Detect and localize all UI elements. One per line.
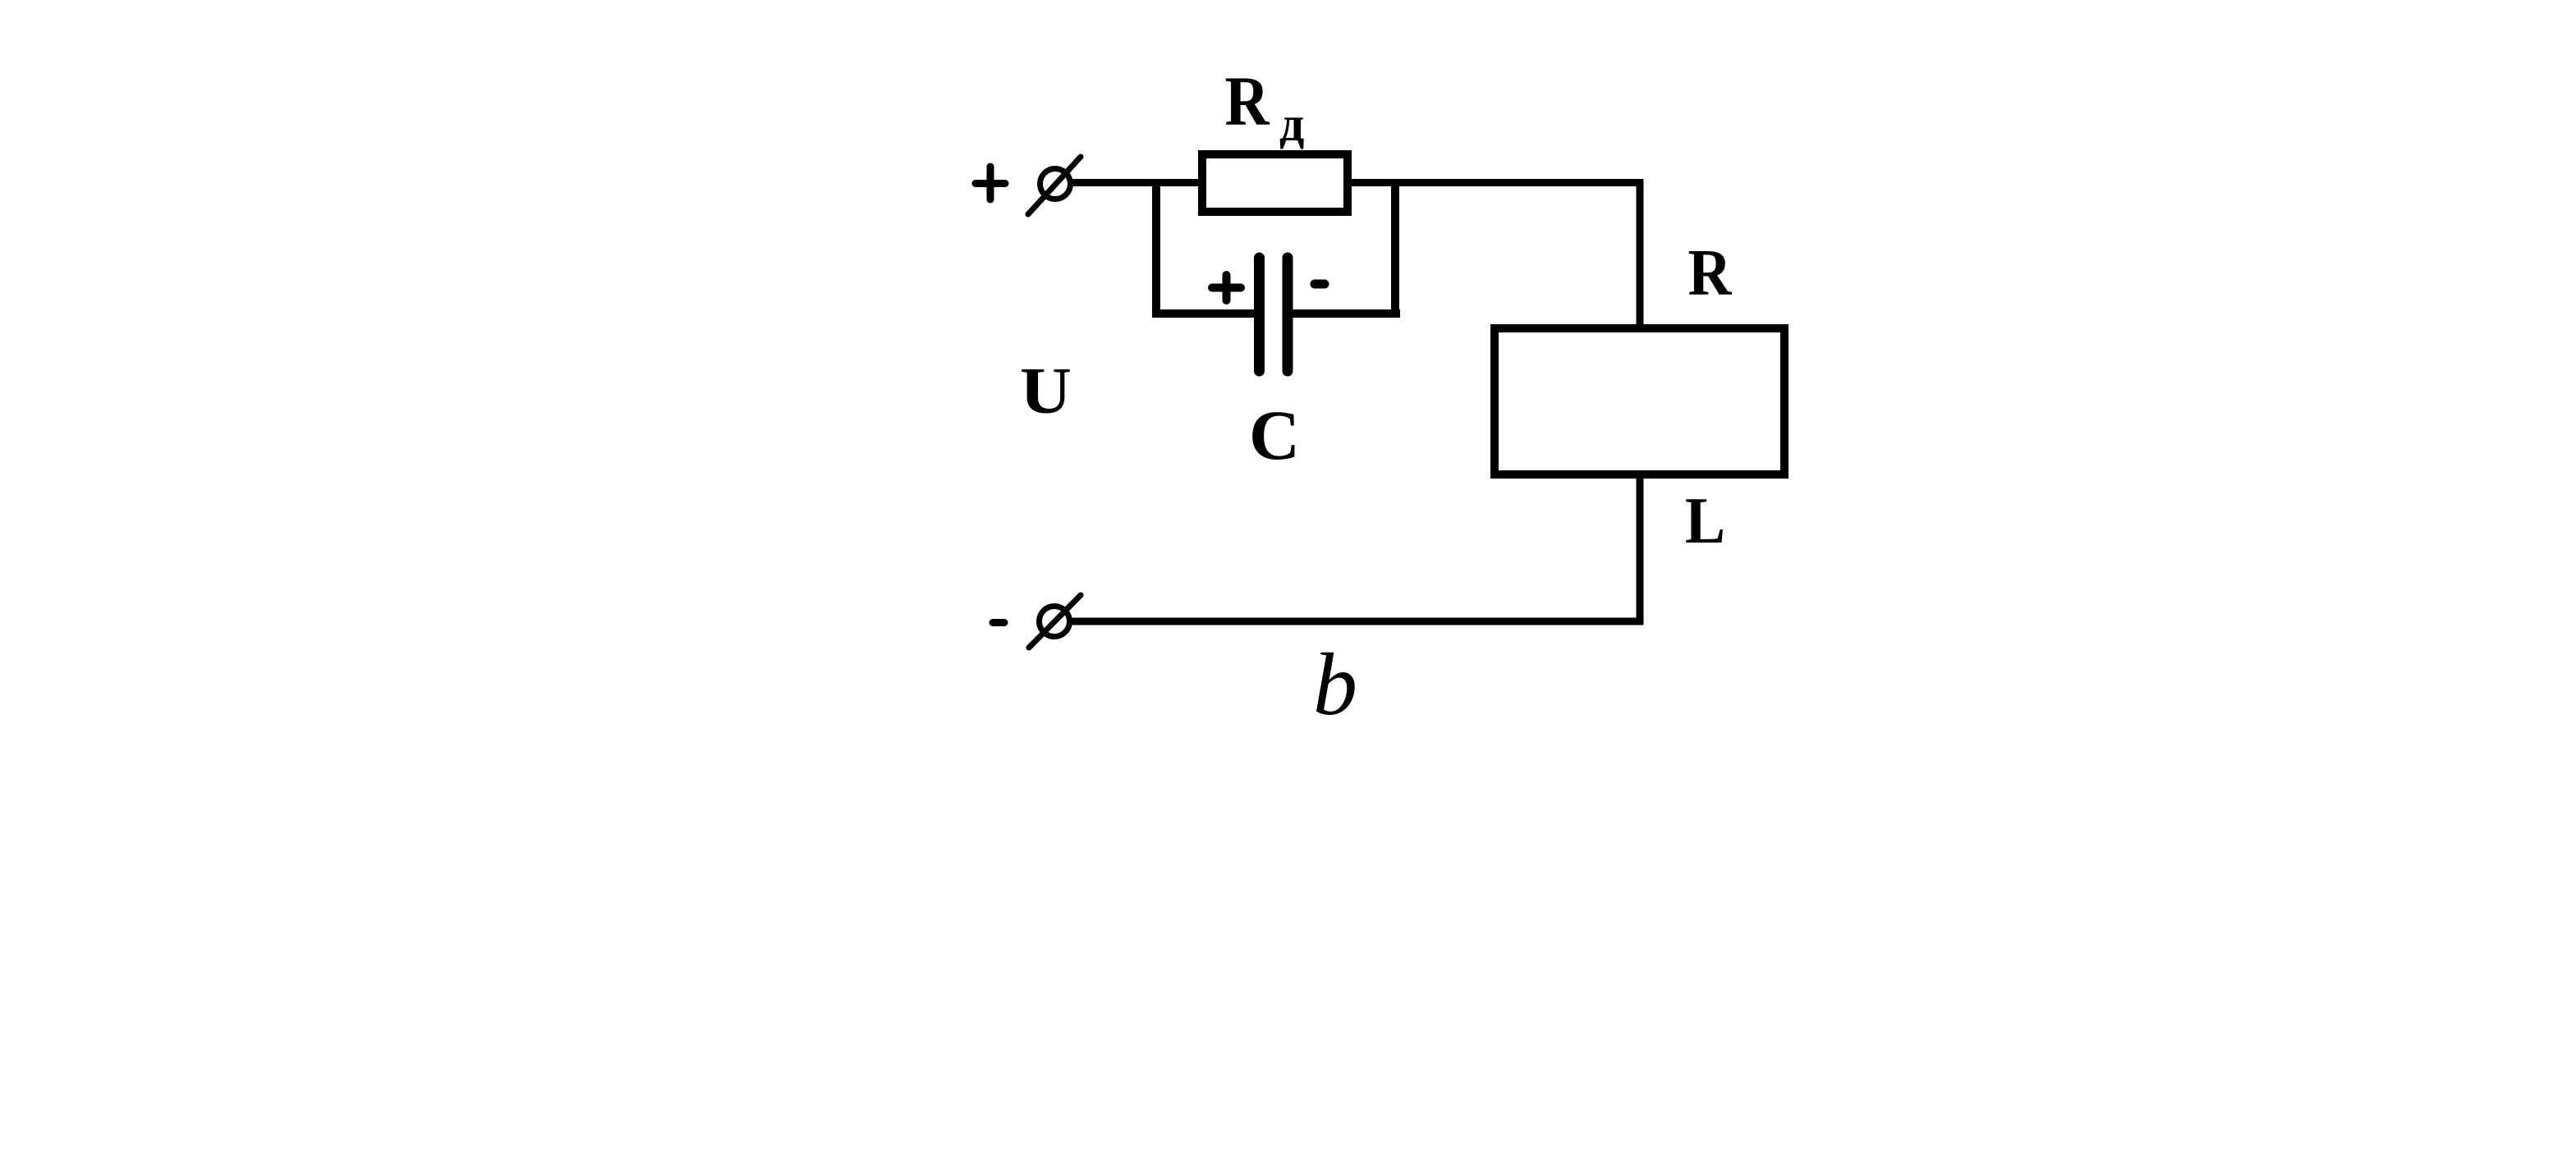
wire: capacitor loop left vertical branch [1152, 182, 1160, 318]
svg-text:b: b [1313, 636, 1357, 734]
svg-text:C: C [1249, 396, 1300, 474]
svg-text:д: д [1279, 97, 1304, 151]
svg-text:U: U [1020, 354, 1072, 428]
terminal circle + (positive input) [1040, 169, 1071, 199]
block R-L rectangle [1495, 328, 1784, 474]
svg-text:L: L [1685, 483, 1725, 557]
wire: capacitor loop bottom right segment [1290, 309, 1400, 318]
wire: vertical from block bottom to bottom wire [1637, 474, 1644, 625]
plus sign at positive input terminal [976, 167, 1005, 199]
wire: capacitor loop bottom left segment [1152, 309, 1256, 318]
wire: bottom horizontal from - terminal to right corner [1070, 618, 1644, 625]
wire: top horizontal from + terminal to right corner [1070, 179, 1644, 186]
capacitor C left plate [1254, 258, 1265, 371]
svg-text:R: R [1688, 237, 1733, 309]
wire: capacitor loop right vertical branch [1391, 182, 1399, 318]
wire: right vertical from top wire down to block R-L [1637, 179, 1644, 328]
terminal - slash [1029, 595, 1081, 648]
svg-text:R: R [1225, 62, 1270, 140]
minus sign of capacitor polarity [1315, 280, 1325, 289]
terminal + slash [1028, 157, 1081, 214]
terminal circle - (negative input) [1040, 607, 1070, 637]
minus sign at negative input terminal [993, 619, 1004, 626]
resistor Rd rectangle [1202, 154, 1348, 212]
plus sign of capacitor polarity [1212, 275, 1241, 300]
capacitor C right plate [1283, 258, 1293, 371]
